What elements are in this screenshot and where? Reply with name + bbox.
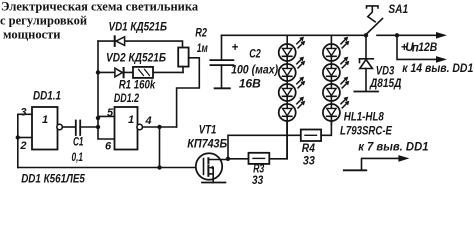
pin 2 of DD1.1 [18,137,32,139]
ground (VD3) [354,91,378,93]
wire: to pin 14 of DD1 [397,35,437,59]
junction dot C1 to DD1.2 inputs [96,125,100,129]
svg-text:DD1.2: DD1.2 [114,93,140,105]
svg-text:16В: 16В [239,78,261,90]
wire: VD1 branch top [98,41,183,47]
svg-text:3: 3 [20,106,26,118]
svg-text:5: 5 [107,107,114,119]
svg-text:HL1-HL8: HL1-HL8 [344,112,385,124]
svg-text:R2: R2 [195,27,207,39]
resistor R3 33 [228,153,269,187]
LED column 2 (HL5-HL8) [323,35,350,124]
wire: DD1.1 output to C1 [62,126,75,128]
svg-text:с регулировкой: с регулировкой [0,14,87,28]
svg-text:VD1 КД521Б: VD1 КД521Б [109,21,168,33]
capacitor C1 0,1 [72,121,99,165]
pin 3 of DD1.1 [18,113,32,115]
wire: R2 tap to DD1.2 output [177,58,200,127]
junction dot DD1.1 inputs [16,135,20,139]
wire: R3 right to LED column 1 [269,118,287,159]
svg-text:2: 2 [19,140,26,152]
svg-text:DD1.1: DD1.1 [33,91,61,103]
LED labels [340,112,392,138]
junction dot pin5 node [96,116,100,120]
wire: VD2/R1 branch [98,71,183,73]
pin 4 output of DD1.2 [143,126,177,128]
svg-text:+: + [232,42,239,54]
resistor R2 1м (with tap) [178,27,208,72]
resistor R4 33 [301,130,321,168]
svg-text:R3: R3 [253,163,265,175]
LED column 1 (HL1-HL4) [279,35,306,159]
diode VD2 КД521Б [106,53,166,78]
svg-text:0,1: 0,1 [72,152,84,164]
zener diode VD3 Д815Д [360,35,402,91]
svg-text:к 7 выв. DD1: к 7 выв. DD1 [358,142,428,154]
wire: top supply rail [222,34,367,36]
wire: output down to gate line [159,127,161,168]
svg-text:100 (мах): 100 (мах) [231,65,278,77]
resistor R1 160k [119,67,156,92]
ground (VT1 source) [202,182,225,184]
title text [0,0,199,42]
svg-text:1: 1 [42,114,48,126]
svg-text:R1 160k: R1 160k [119,79,156,91]
svg-text:Д815Д: Д815Д [369,78,401,90]
svg-text:1м: 1м [197,43,208,55]
svg-text:R4: R4 [302,143,316,155]
pin 5 of DD1.2 [98,115,115,117]
pin 6 of DD1.2 [98,138,115,140]
diode VD1 КД521Б [109,21,168,46]
wire: R4 right to LED column 2 [321,121,331,135]
node A: left input vertical wire [97,41,99,138]
junction dot output node [157,125,161,129]
svg-text:Электрическая схема светильник: Электрическая схема светильника [1,0,199,14]
wire: feedback/gate bottom line [18,167,204,169]
svg-text:мощности: мощности [3,28,61,42]
transistor VT1 КП743Б (MOSFET) [187,125,228,183]
svg-text:33: 33 [303,155,316,167]
logic gate DD1.2 [114,93,143,150]
wire: drain node up and right to R4 [228,135,301,159]
svg-text:C1: C1 [73,137,84,149]
ground (C2) [215,87,230,89]
svg-text:к 14 выв. DD1: к 14 выв. DD1 [402,63,473,75]
junction dot VT1 drain node [226,157,230,161]
svg-text:VT1: VT1 [199,125,217,137]
svg-text:C2: C2 [249,49,261,61]
svg-text:L793SRC-E: L793SRC-E [340,125,392,137]
svg-text:4: 4 [145,115,152,127]
wire: DD1.1 input tie + feedback down [17,114,19,167]
svg-text:DD1 К561ЛЕ5: DD1 К561ЛЕ5 [21,173,85,185]
svg-text:12В: 12В [418,42,437,54]
svg-text:33: 33 [252,175,264,187]
svg-text:6: 6 [105,140,112,152]
svg-text:SA1: SA1 [388,4,408,16]
ground (to pin 7 of DD1) with arrow [344,142,429,171]
svg-text:КП743Б: КП743Б [187,138,227,150]
logic gate DD1.1 [32,91,62,150]
svg-text:VD2 КД521Б: VD2 КД521Б [106,53,166,65]
switch SA1 [364,4,408,38]
wire: rail right of switch with arrow to +Un [377,34,437,36]
junction dot VD2 branch [96,70,100,74]
junction dot gate line [157,165,161,169]
capacitor C2 100 (мах) 16В [210,35,278,90]
svg-text:1: 1 [128,114,134,126]
svg-text:VD3: VD3 [376,65,395,77]
